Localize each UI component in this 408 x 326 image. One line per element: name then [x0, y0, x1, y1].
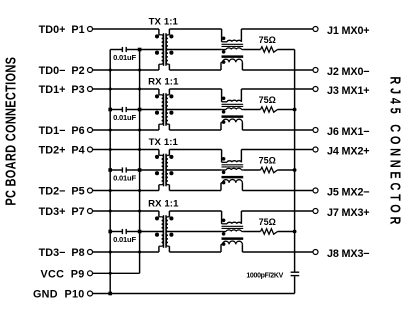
wire T1 secondary center tap to choke L1 [167, 49, 221, 51]
svg-text:RX 1:1: RX 1:1 [148, 199, 179, 210]
svg-text:TX 1:1: TX 1:1 [149, 137, 179, 148]
pin P3 label TD1+ P3 [39, 84, 85, 96]
pin P9 label VCC P9 [40, 268, 84, 280]
svg-text:PC BOARD CONNECTIONS: PC BOARD CONNECTIONS [2, 57, 19, 206]
pin J5 terminal [313, 188, 318, 193]
wire P7 to T4 primary top [93, 210, 159, 212]
wire P4 to T3 primary top [93, 149, 159, 151]
svg-text:TD2− P5: TD2− P5 [39, 186, 85, 198]
wire choke L2 w1 out to J3 [241, 89, 313, 102]
pin J8 label J8 MX3- [327, 248, 369, 260]
wire T4 secondary bottom to choke L4 w3 [169, 244, 221, 252]
choke L2 phase dots [222, 97, 226, 124]
svg-text:TD1+ P3: TD1+ P3 [39, 84, 85, 96]
pin P7 label TD3+ P7 [39, 206, 85, 218]
svg-text:75Ω: 75Ω [259, 217, 276, 227]
choke L4 phase dots [222, 219, 226, 246]
pin J7 terminal [313, 209, 318, 214]
pin P5 label TD2- P5 [39, 186, 85, 198]
svg-text:TD0− P2: TD0− P2 [39, 65, 85, 77]
wire VCC P9 to VCC rail [93, 272, 140, 274]
transformer T4 label RX 1:1 [148, 199, 179, 210]
pin P2 label TD0- P2 [39, 65, 85, 77]
pin J4 terminal [313, 147, 318, 152]
svg-text:TD3+ P7: TD3+ P7 [39, 206, 85, 218]
wire P8 to T4 primary bottom [93, 251, 159, 253]
common-mode choke L2 [221, 100, 243, 122]
svg-text:VCC P9: VCC P9 [40, 268, 84, 280]
title: RJ45 CONNECTOR [387, 76, 404, 228]
pin P2 terminal [88, 68, 93, 73]
junction: C4 to VCC rail [138, 230, 142, 234]
junction: GND rail to GND wire [108, 292, 112, 296]
pin P10 terminal [88, 291, 93, 296]
wire choke L1 w3 out to J2 [242, 62, 313, 70]
resistor R2 75ohm [243, 107, 294, 112]
transformer T1 phase dots [155, 34, 174, 54]
common-mode choke L4 [221, 222, 243, 244]
junction: C2 to GND rail [108, 108, 112, 112]
svg-text:J5 MX2−: J5 MX2− [327, 186, 369, 198]
resistor R2 value label 75 Ohm [259, 95, 276, 105]
svg-text:J6 MX1−: J6 MX1− [327, 126, 369, 138]
transformer T1 label TX 1:1 [149, 17, 179, 28]
choke L3 phase dots [222, 157, 226, 184]
svg-text:J8 MX3−: J8 MX3− [327, 248, 369, 260]
wire T2 primary center tap to VCC rail [140, 109, 163, 111]
transformer T3 (TX 1:1) [159, 150, 170, 191]
capacitor C1 0.01uF [110, 47, 139, 52]
pin P1 label TD0+ P1 [39, 24, 85, 36]
svg-text:J4 MX2+: J4 MX2+ [327, 145, 369, 157]
resistor R4 value label 75 Ohm [259, 217, 276, 227]
wire choke L4 w3 out to J8 [242, 244, 313, 252]
junction: R3 to termination rail [293, 168, 297, 172]
pin P8 terminal [88, 250, 93, 255]
transformer T2 (RX 1:1) [159, 89, 170, 130]
svg-text:TX 1:1: TX 1:1 [149, 17, 179, 28]
wire T2 secondary top to choke L2 [169, 89, 221, 102]
transformer T3 label TX 1:1 [149, 137, 179, 148]
wire P2 to T1 primary bottom [93, 69, 159, 71]
transformer T4 (RX 1:1) [159, 211, 170, 252]
svg-text:0.01uF: 0.01uF [113, 173, 136, 182]
wire crossing blobs on rails [109, 68, 142, 274]
transformer T2 phase dots [155, 94, 174, 114]
svg-text:TD2+ P4: TD2+ P4 [39, 145, 85, 157]
pin J1 label J1 MX0+ [327, 25, 369, 37]
pin J6 label J6 MX1- [327, 126, 369, 138]
pin J7 label J7 MX3+ [327, 207, 369, 219]
pin P6 terminal [88, 128, 93, 133]
pin J8 terminal [313, 250, 318, 255]
pin P10 label GND P10 [33, 289, 85, 301]
resistor R1 value label 75 Ohm [259, 35, 276, 45]
wire choke L1 w1 out to J1 [241, 29, 313, 42]
pin J2 terminal [313, 68, 318, 73]
svg-text:0.01uF: 0.01uF [113, 235, 136, 244]
svg-text:GND P10: GND P10 [33, 289, 85, 301]
wire P3 to T2 primary top [93, 88, 159, 90]
svg-text:J7 MX3+: J7 MX3+ [327, 207, 369, 219]
pin P4 label TD2+ P4 [39, 145, 85, 157]
capacitor C4 0.01uF [110, 229, 139, 234]
transformer T3 phase dots [155, 155, 174, 175]
wire T4 primary center tap to VCC rail [140, 231, 163, 233]
svg-text:75Ω: 75Ω [259, 95, 276, 105]
svg-text:TD3− P8: TD3− P8 [39, 247, 85, 259]
pin P7 terminal [88, 209, 93, 214]
pin P9 terminal [88, 271, 93, 276]
transformer T1 (TX 1:1) [159, 29, 170, 70]
capacitor C3 0.01uF [110, 167, 139, 172]
pin P8 label TD3- P8 [39, 247, 85, 259]
junction: C3 to VCC rail [138, 168, 142, 172]
svg-text:TD0+ P1: TD0+ P1 [39, 24, 85, 36]
wire P1 to T1 primary top [93, 28, 159, 30]
junction: C3 to GND rail [108, 168, 112, 172]
pin J3 terminal [313, 87, 318, 92]
resistor R3 value label 75 Ohm [259, 156, 276, 166]
wire T3 secondary center tap to choke L3 [167, 169, 221, 171]
pin P3 terminal [88, 87, 93, 92]
wire choke L3 w3 out to J5 [242, 183, 313, 191]
wire T3 primary center tap to VCC rail [140, 169, 163, 171]
capacitor C5 value label 1000pF/2KV [246, 272, 283, 279]
pin J1 terminal [313, 27, 318, 32]
capacitor C5 1000pF/2KV [291, 272, 300, 275]
junction: R4 to termination rail [293, 230, 297, 234]
capacitor C3 value label 0.01uF [113, 173, 136, 182]
wire T1 secondary top to choke L1 [169, 29, 221, 42]
wire T4 secondary center tap to choke L4 [167, 231, 221, 233]
wire choke L3 w1 out to J4 [241, 150, 313, 163]
wire P6 to T2 primary bottom [93, 129, 159, 131]
wire choke L4 w1 out to J7 [241, 211, 313, 224]
wire P5 to T3 primary bottom [93, 190, 159, 192]
capacitor C4 value label 0.01uF [113, 235, 136, 244]
resistor R4 75ohm [243, 229, 294, 234]
wire T2 secondary center tap to choke L2 [167, 109, 221, 111]
wire T4 secondary top to choke L4 [169, 211, 221, 224]
pin J3 label J3 MX1+ [327, 85, 369, 97]
pin P4 terminal [88, 147, 93, 152]
svg-text:J1 MX0+: J1 MX0+ [327, 25, 369, 37]
pin P5 terminal [88, 188, 93, 193]
wire T1 secondary bottom to choke L1 w3 [169, 62, 221, 70]
title: PC BOARD CONNECTIONS [2, 57, 19, 206]
pin P6 label TD1- P6 [39, 125, 85, 137]
termination rail (vertical) [294, 50, 296, 272]
junction: R2 to termination rail [293, 108, 297, 112]
pin J6 terminal [313, 128, 318, 133]
wire GND P10 to termination capacitor C5 [93, 276, 295, 293]
wire T3 secondary top to choke L3 [169, 150, 221, 163]
wire T2 secondary bottom to choke L2 w3 [169, 122, 221, 130]
svg-text:J3 MX1+: J3 MX1+ [327, 85, 369, 97]
transformer T4 phase dots [155, 216, 174, 236]
pin J5 label J5 MX2- [327, 186, 369, 198]
choke L1 phase dots [222, 37, 226, 64]
VCC rail (vertical) [139, 50, 141, 274]
pin P1 terminal [88, 27, 93, 32]
common-mode choke L1 [221, 40, 243, 62]
wire choke L2 w3 out to J6 [242, 122, 313, 130]
resistor R1 75ohm [243, 47, 294, 52]
resistor R3 75ohm [243, 167, 294, 172]
capacitor C1 value label 0.01uF [113, 53, 136, 62]
junction: C4 to GND rail [108, 230, 112, 234]
capacitor C2 value label 0.01uF [113, 113, 136, 122]
junction: C1 to VCC rail [138, 48, 142, 52]
svg-text:0.01uF: 0.01uF [113, 53, 136, 62]
wire T1 primary center tap to VCC rail [140, 49, 163, 51]
svg-text:0.01uF: 0.01uF [113, 113, 136, 122]
capacitor C2 0.01uF [110, 107, 139, 112]
svg-text:J2 MX0−: J2 MX0− [327, 66, 369, 78]
pin J4 label J4 MX2+ [327, 145, 369, 157]
common-mode choke L3 [221, 161, 243, 183]
pin J2 label J2 MX0- [327, 66, 369, 78]
svg-text:1000pF/2KV: 1000pF/2KV [246, 272, 283, 279]
svg-text:75Ω: 75Ω [259, 156, 276, 166]
svg-text:75Ω: 75Ω [259, 35, 276, 45]
transformer T2 label RX 1:1 [148, 77, 179, 88]
GND rail (vertical) [109, 50, 111, 294]
svg-text:TD1− P6: TD1− P6 [39, 125, 85, 137]
wire T3 secondary bottom to choke L3 w3 [169, 183, 221, 191]
junction: C2 to VCC rail [138, 108, 142, 112]
svg-text:RJ45 CONNECTOR: RJ45 CONNECTOR [387, 76, 404, 228]
svg-text:RX 1:1: RX 1:1 [148, 77, 179, 88]
